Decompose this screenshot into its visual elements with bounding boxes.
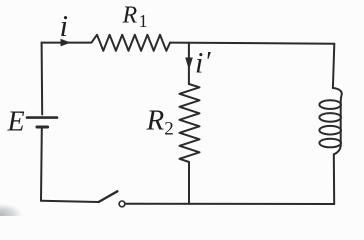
wire bottom-right segment [125,203,334,205]
wire left vertical top [41,43,44,115]
resistor R2 [180,84,200,162]
switch S [99,191,125,207]
wire bottom-left segment [41,201,99,202]
current arrow i' head [185,58,193,71]
wire right vertical bottom [333,154,335,204]
inductor L [319,88,341,154]
wire top-left segment [42,42,91,44]
svg-text:i′: i′ [195,47,211,80]
wire left vertical bottom [40,129,43,201]
wire middle branch upper [188,43,190,84]
svg-text:E: E [7,106,25,137]
wire right vertical top [333,44,334,88]
current arrow i head [61,39,71,47]
wire top-right segment [170,43,334,44]
svg-text:i: i [60,8,69,43]
wire middle branch lower [188,162,190,204]
battery E [27,118,57,127]
scan smudge bottom-left [0,0,1,1]
resistor R1 [92,35,171,51]
